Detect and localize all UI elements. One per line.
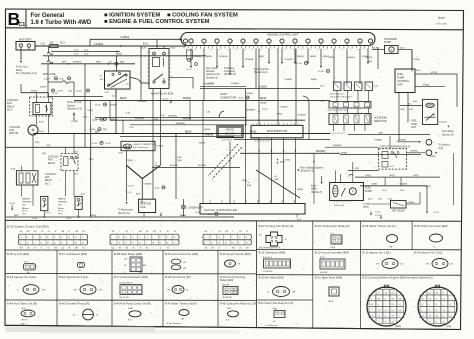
- wire LBR 170: [348, 169, 379, 171]
- svg-text:RELAY: RELAY: [48, 162, 56, 165]
- svg-text:B-02 Cooling Fan Motor [F]: B-02 Cooling Fan Motor [F]: [259, 224, 294, 228]
- wire GR bus 1: [355, 176, 440, 178]
- wire bus B/W 124: [130, 124, 246, 126]
- wire fan motor drop: [32, 135, 34, 147]
- svg-text:L: L: [124, 272, 125, 274]
- svg-text:FAN: FAN: [48, 159, 53, 162]
- svg-text:B/W[EM]: B/W[EM]: [138, 101, 147, 103]
- wire feed row y63.8: [41, 63, 135, 65]
- svg-text:(PALE (PALE (PALE (PALE: (PALE (PALE (PALE (PALE: [330, 96, 353, 99]
- wire x123 vertical2: [122, 120, 124, 133]
- svg-text:B-17 Solenoid Resistor [EM]: B-17 Solenoid Resistor [EM]: [114, 275, 148, 279]
- wire thermo1 ground: [43, 211, 45, 215]
- high tension leads V: [127, 165, 143, 178]
- svg-text:For General | For L.H.: For General | For L.H.: [259, 246, 281, 249]
- svg-text:WHS FUSE: WHS FUSE: [43, 73, 56, 76]
- knock sensor twisted pair: [208, 144, 238, 176]
- svg-text:AIR VALVE: AIR VALVE: [392, 210, 405, 213]
- svg-text:GR: GR: [181, 318, 185, 320]
- wire ECU pin drop: [359, 49, 361, 84]
- svg-text:L/BR: L/BR: [355, 168, 360, 170]
- wire ECU pin drop: [229, 49, 231, 73]
- svg-text:For General: For General: [31, 13, 65, 19]
- svg-text:THERMO: THERMO: [58, 202, 68, 204]
- distributor pin drops: [258, 138, 260, 204]
- svg-text:B/Y[R]: B/Y[R]: [414, 59, 420, 61]
- svg-text:W[EM]: W[EM]: [297, 189, 303, 191]
- svg-text:JC-02: JC-02: [375, 211, 381, 213]
- wire ECU to FPCU: [377, 47, 379, 69]
- svg-text:-C1: -C1: [17, 22, 26, 28]
- wire ECU pin drop: [268, 49, 270, 62]
- ECU pin: [183, 39, 187, 43]
- svg-text:■ ENGINE & FUEL CONTROL SYSTEM: ■ ENGINE & FUEL CONTROL SYSTEM: [104, 19, 210, 25]
- ECU pin: [293, 39, 297, 43]
- svg-text:W: W: [68, 247, 70, 249]
- table row rule right 2: [257, 274, 461, 277]
- fuse 30A: [50, 45, 59, 48]
- wire ECU pin drop: [307, 49, 309, 62]
- solenoid valve boxes: [334, 82, 342, 91]
- svg-text:B-11 2 B-11 2 B-11: B-11 2 B-11 2 B-11: [255, 141, 270, 143]
- wire transfer pump left: [372, 49, 385, 51]
- svg-text:BL: BL: [26, 237, 28, 239]
- bottom rule left: [5, 325, 257, 327]
- svg-text:B-45 [R]: B-45 [R]: [439, 122, 447, 124]
- svg-text:Y/G[EM]: Y/G[EM]: [280, 107, 288, 109]
- svg-text:4-10: 4-10: [74, 49, 79, 51]
- svg-text:B G: B G: [128, 319, 132, 321]
- wire coil grounds: [143, 213, 145, 218]
- svg-text:B-13 Injector No.1 [AL]: B-13 Injector No.1 [AL]: [362, 250, 391, 254]
- wire right edge vertical x457: [456, 74, 458, 107]
- wire bus bottom B: [6, 216, 234, 218]
- svg-text:W: W: [436, 304, 438, 306]
- svg-text:■ COOLING FAN SYSTEM: ■ COOLING FAN SYSTEM: [167, 12, 238, 18]
- battery B1: [16, 42, 35, 51]
- svg-text:Y/B[EM]: Y/B[EM]: [347, 57, 355, 59]
- wire relay verticals: [65, 147, 67, 153]
- svg-text:W: W: [436, 310, 438, 312]
- svg-text:(Section G-2): (Section G-2): [67, 108, 82, 111]
- svg-text:[EM]: [EM]: [396, 325, 401, 328]
- svg-text:J5-08: J5-08: [95, 105, 101, 107]
- svg-text:L: L: [450, 298, 451, 300]
- svg-text:BR/T: BR/T: [14, 215, 20, 217]
- svg-text:(Section 5): (Section 5): [203, 83, 214, 86]
- svg-text:For Tachometer: For Tachometer: [133, 146, 149, 149]
- svg-text:4-02: 4-02: [105, 92, 110, 94]
- svg-text:COOLING: COOLING: [45, 174, 56, 176]
- svg-text:BL: BL: [20, 231, 22, 233]
- svg-text:B/W[EM]: B/W[EM]: [135, 118, 144, 120]
- svg-text:B-17 B-17 B-17 B-17: B-17 B-17 B-17 B-17: [329, 133, 346, 135]
- wire x85 vertical: [84, 64, 86, 148]
- fuel tank unit: [423, 99, 438, 124]
- ECU pin: [215, 39, 219, 43]
- wire air valve left: [372, 203, 391, 205]
- wire bus B/W 139: [234, 139, 330, 141]
- svg-text:B[EM]: B[EM]: [363, 206, 369, 208]
- svg-text:B/W: B/W: [139, 272, 143, 274]
- wire ECU pin drop: [367, 49, 369, 62]
- svg-text:4-02: 4-02: [84, 49, 89, 51]
- svg-text:B-19: B-19: [390, 166, 394, 168]
- fusible link curl 2: [47, 61, 53, 64]
- fusible link curl 1: [47, 53, 53, 55]
- svg-text:B-22 Connector Between Emissio: B-22 Connector Between Emission [EM] and…: [362, 277, 433, 280]
- svg-text:B/R: B/R: [410, 109, 414, 111]
- svg-text:Y/G[EM]: Y/G[EM]: [398, 140, 406, 142]
- svg-text:B[R]: B[R]: [401, 109, 405, 111]
- engine control unit U1: [181, 33, 375, 46]
- svg-text:B-13: B-13: [320, 86, 324, 88]
- svg-text:B/W[F]: B/W[F]: [110, 105, 117, 107]
- svg-text:L: L: [450, 310, 451, 312]
- table column rules right: [312, 221, 314, 328]
- svg-text:GR: GR: [292, 292, 296, 294]
- svg-text:CHECK CONNECTOR: CHECK CONNECTOR: [133, 144, 156, 146]
- svg-text:B[EM]: B[EM]: [180, 215, 186, 217]
- svg-text:Y/G[M]: Y/G[M]: [71, 121, 78, 123]
- svg-text:B-10 2 B-10: B-10 2 B-10: [222, 140, 234, 142]
- ECU pin: [306, 39, 310, 43]
- svg-text:B/Y[F]: B/Y[F]: [40, 86, 46, 88]
- svg-text:UR B: UR B: [328, 301, 334, 303]
- water thermo switch 1: [41, 196, 48, 210]
- wire x190 vertical: [189, 100, 191, 120]
- svg-text:SI 4-07: SI 4-07: [128, 186, 135, 188]
- svg-text:B-35: B-35: [378, 199, 382, 201]
- wire battery to air con relay: [20, 50, 22, 61]
- svg-text:JC-32: JC-32: [105, 143, 111, 145]
- svg-text:BL: BL: [146, 247, 148, 249]
- wire diagonal to knock controller: [256, 170, 300, 198]
- svg-text:W: W: [246, 231, 248, 233]
- svg-text:GR[F]: GR[F]: [389, 175, 395, 177]
- svg-text:To Section: To Section: [439, 144, 450, 147]
- terminal circle B: [426, 150, 432, 156]
- svg-text:B-05 Check Connector [EM]: B-05 Check Connector [EM]: [414, 224, 448, 228]
- svg-text:JC-03: JC-03: [375, 215, 381, 217]
- svg-text:L: L: [225, 247, 226, 249]
- svg-text:W: W: [378, 293, 380, 295]
- svg-text:OFF: OFF: [58, 213, 63, 215]
- condenser C1: [183, 199, 185, 206]
- wire relay to terminal A: [397, 141, 420, 143]
- wire mid verticals 1: [245, 89, 247, 204]
- wire ECU pin drop: [281, 49, 283, 62]
- svg-text:B[EM]: B[EM]: [206, 56, 212, 58]
- svg-text:JC-01: JC-01: [32, 218, 38, 220]
- svg-text:20A: 20A: [68, 90, 72, 93]
- wire ECU pin drop: [294, 49, 296, 62]
- wire IG switch output: [115, 89, 117, 134]
- check connector tachometer: [121, 141, 155, 150]
- svg-text:B[EM]: B[EM]: [310, 56, 316, 58]
- svg-text:L/R: L/R: [183, 262, 187, 264]
- connector B-22 circular [AL]: [418, 287, 457, 326]
- svg-text:L: L: [429, 304, 430, 306]
- svg-text:J5-06: J5-06: [76, 91, 82, 93]
- svg-text:B/T[EM]: B/T[EM]: [73, 62, 81, 64]
- wire main relay feed: [156, 39, 158, 48]
- svg-text:B/W[EM]: B/W[EM]: [247, 110, 256, 112]
- svg-text:L: L: [211, 231, 212, 233]
- svg-text:B-01: B-01: [143, 43, 149, 45]
- svg-text:Y/B[EM]: Y/B[EM]: [365, 57, 373, 59]
- svg-text:B-10 Knock Sensor [EM]: B-10 Knock Sensor [EM]: [220, 252, 251, 256]
- note from meter right: [448, 126, 450, 128]
- svg-text:L/R: L/R: [42, 290, 46, 292]
- svg-text:Y/G[EM]: Y/G[EM]: [258, 86, 267, 88]
- svg-text:Y[F]: Y[F]: [46, 145, 50, 147]
- wire x110 vertical: [109, 100, 111, 120]
- svg-text:W: W: [422, 304, 424, 306]
- svg-text:RESISTOR: RESISTOR: [374, 120, 387, 123]
- svg-text:B/W: B/W: [178, 157, 182, 159]
- svg-text:R/G[EM]: R/G[EM]: [219, 56, 228, 58]
- wire hook to bus: [303, 96, 309, 103]
- svg-text:(-,F): (-,F): [128, 192, 132, 194]
- wire bus Y/G top: [90, 38, 182, 40]
- table row rule right 1: [257, 248, 461, 251]
- wire knock controller left feed: [202, 100, 204, 203]
- svg-text:JC-01: JC-01: [66, 218, 72, 220]
- svg-text:Y BW: Y BW: [226, 308, 231, 310]
- svg-text:FAN: FAN: [45, 176, 50, 179]
- wire bus Y/G mid: [200, 88, 320, 90]
- table row rule left 3: [5, 299, 257, 301]
- wire feed row y55.8: [43, 55, 206, 57]
- svg-text:B/W[EM]: B/W[EM]: [316, 151, 325, 153]
- svg-text:(Above: (Above: [22, 207, 29, 210]
- terminal circle A: [426, 139, 432, 145]
- svg-text:GR[F]: GR[F]: [372, 184, 378, 186]
- svg-text:Y/G[EM]: Y/G[EM]: [144, 184, 152, 186]
- table sub row rule right: [257, 299, 313, 301]
- svg-text:B/G[R]: B/G[R]: [423, 84, 430, 86]
- svg-text:JC-36: JC-36: [262, 109, 268, 111]
- svg-text:L/R: L/R: [99, 290, 103, 292]
- solenoid resistor block: [329, 114, 371, 125]
- svg-text:R[EM]: R[EM]: [329, 57, 335, 59]
- svg-text:SI B-06: SI B-06: [157, 146, 165, 148]
- wire air valve right: [406, 203, 420, 205]
- svg-text:B-15 Injector No.3 [AL]: B-15 Injector No.3 [AL]: [7, 275, 36, 279]
- svg-text:JC-06: JC-06: [318, 71, 324, 73]
- wire bus B/W 153: [240, 152, 340, 154]
- ECU pin: [368, 39, 372, 43]
- svg-text:B-01 Engine Control Unit [EM]: B-01 Engine Control Unit [EM]: [7, 224, 49, 228]
- wire bus L/BR right: [348, 134, 430, 136]
- svg-text:BL: BL: [159, 243, 161, 245]
- wire knock controller ground: [296, 214, 298, 218]
- svg-text:THERMO: THERMO: [22, 202, 32, 204]
- svg-text:T[EM]: T[EM]: [425, 186, 431, 188]
- wire transfer pump right: [398, 49, 412, 51]
- svg-text:(Section E-b): (Section E-b): [254, 71, 268, 74]
- svg-text:(Below: (Below: [58, 208, 65, 210]
- svg-text:W: W: [385, 316, 387, 318]
- wire thermo2 ground: [78, 209, 80, 214]
- wire from wiper arrow: [321, 182, 323, 184]
- wire main relay outputs: [152, 89, 154, 200]
- svg-text:CONDENSER: CONDENSER: [188, 207, 204, 210]
- svg-text:From Meter: From Meter: [442, 130, 454, 133]
- svg-text:B[F]: B[F]: [95, 131, 100, 133]
- svg-text:No.2: No.2: [7, 109, 13, 112]
- svg-text:B/R[EM]: B/R[EM]: [205, 134, 214, 136]
- fuel pump P1: [330, 183, 364, 201]
- ECU pin: [332, 39, 336, 43]
- wire fan relay no2 out: [36, 115, 38, 126]
- svg-text:BL: BL: [54, 243, 56, 245]
- svg-text:[EM]: [EM]: [247, 185, 252, 187]
- arrow pair 1EM: [277, 159, 279, 161]
- ECU pin: [280, 39, 284, 43]
- svg-text:CONNECTOR: CONNECTOR: [220, 96, 236, 99]
- svg-text:B[EM]: B[EM]: [261, 103, 267, 105]
- svg-text:YB YR: YB YR: [21, 319, 28, 321]
- svg-text:4-10: 4-10: [74, 54, 79, 56]
- wire ECU pin drop: [203, 49, 205, 101]
- ECU pin stubs: [183, 46, 185, 49]
- water thermo switch 2: [75, 196, 82, 209]
- svg-text:B-18 Fuel Pump [R]: B-18 Fuel Pump [R]: [165, 275, 191, 279]
- svg-text:YDA: YDA: [59, 77, 64, 80]
- svg-text:L: L: [422, 310, 423, 312]
- svg-text:B/C[EM]: B/C[EM]: [245, 93, 253, 95]
- svg-text:B-47 Water Thermo Sw [F]: B-47 Water Thermo Sw [F]: [165, 302, 197, 306]
- svg-text:(Section T): (Section T): [311, 191, 322, 194]
- main relay K1: [149, 49, 169, 89]
- svg-text:B/W[EM]: B/W[EM]: [168, 115, 177, 117]
- svg-text:B[F]: B[F]: [120, 62, 124, 64]
- wire right vertical JC-21: [426, 186, 428, 210]
- wire IG switch feed: [115, 56, 117, 71]
- ECU pin: [241, 39, 245, 43]
- svg-text:PUMP: PUMP: [384, 41, 391, 44]
- svg-text:L: L: [132, 231, 133, 233]
- svg-text:To Tachometer: To Tachometer: [118, 209, 133, 212]
- svg-text:COIL: COIL: [140, 206, 146, 209]
- svg-text:1[EM]: 1[EM]: [280, 162, 286, 164]
- svg-text:PUMP: PUMP: [365, 190, 372, 193]
- svg-text:B-01: B-01: [112, 95, 117, 97]
- svg-text:GR: GR: [389, 247, 393, 249]
- svg-text:B-21: B-21: [60, 42, 66, 44]
- wire ECU pin drop: [242, 49, 244, 66]
- wire hook at 219: [219, 111, 224, 118]
- svg-text:B-20: B-20: [368, 199, 372, 201]
- wire x141 vertical: [140, 46, 142, 100]
- svg-text:B-07 Condenser [EM]: B-07 Condenser [EM]: [59, 252, 87, 256]
- svg-text:G[F]: G[F]: [42, 153, 47, 155]
- svg-text:L: L: [68, 243, 69, 245]
- svg-text:[R]: [R]: [408, 103, 411, 105]
- svg-text:17°C): 17°C): [58, 211, 64, 213]
- svg-text:CIRCUIT OPENING RELAY: CIRCUIT OPENING RELAY: [380, 145, 411, 148]
- svg-text:KNOCK CONTROLLER: KNOCK CONTROLLER: [204, 208, 238, 212]
- svg-text:B-04 Water Thermo Sw [F]: B-04 Water Thermo Sw [F]: [362, 224, 395, 228]
- ignition coil T1: [139, 199, 156, 212]
- wire battery main feed y46: [35, 45, 186, 47]
- svg-text:B-09 Joint Connector [EM]: B-09 Joint Connector [EM]: [165, 252, 198, 256]
- table row rule left 2: [5, 273, 257, 275]
- svg-text:TANK: TANK: [411, 123, 417, 126]
- svg-text:UNIT: UNIT: [397, 83, 403, 86]
- svg-text:4-05: 4-05: [84, 54, 89, 56]
- svg-text:L/R: L/R: [183, 268, 187, 270]
- wire ECU pin drop: [346, 49, 348, 84]
- ECU pin: [202, 39, 206, 43]
- svg-text:[AL]: [AL]: [447, 325, 452, 328]
- svg-text:RED: RED: [62, 62, 67, 64]
- svg-text:Y[FM]: Y[FM]: [277, 114, 283, 116]
- scan shadow bottom left: [5, 327, 155, 333]
- index box B-C1: [25, 9, 27, 28]
- svg-text:B-16 Injector No.4 [AL]: B-16 Injector No.4 [AL]: [59, 275, 88, 279]
- svg-text:W[F]: W[F]: [96, 62, 101, 64]
- svg-text:1.6 ℓ Turbo With 4WD: 1.6 ℓ Turbo With 4WD: [31, 20, 92, 26]
- header band bottom rule: [6, 28, 464, 30]
- svg-text:SENSOR: SENSOR: [225, 132, 235, 135]
- svg-text:S[EM]: S[EM]: [430, 156, 436, 158]
- wire distributor feeds: [258, 49, 260, 126]
- bottom table mid divider: [256, 221, 258, 328]
- svg-text:B-08: B-08: [171, 48, 176, 50]
- svg-text:Note: Note: [438, 16, 445, 20]
- svg-text:DR GR WR: DR GR WR: [222, 297, 232, 299]
- svg-text:B/Y[F]: B/Y[F]: [31, 91, 37, 93]
- wire ECU pin drop: [190, 49, 192, 66]
- svg-text:GR[F]: GR[F]: [413, 175, 419, 177]
- svg-text:● No part: ● No part: [436, 22, 447, 26]
- svg-text:4-21: 4-21: [41, 43, 46, 45]
- resistor relay box: [16, 171, 38, 185]
- svg-text:B[F]: B[F]: [103, 129, 107, 131]
- svg-text:ENGINE CONTROL UNIT: ENGINE CONTROL UNIT: [267, 33, 298, 37]
- wire bus BR upper: [74, 99, 330, 101]
- knock controller pins: [209, 200, 211, 204]
- knock sensor: [217, 126, 243, 138]
- knock controller U3: [200, 204, 305, 215]
- svg-text:Y/G[EM]: Y/G[EM]: [120, 36, 129, 39]
- svg-text:[EM]: [EM]: [275, 179, 280, 181]
- ECU pin: [254, 39, 258, 43]
- svg-text:BL: BL: [40, 237, 42, 239]
- wire vertical from bus to knock controller: [313, 153, 315, 203]
- svg-text:WATER: WATER: [58, 198, 66, 201]
- svg-text:B/W[EM]: B/W[EM]: [176, 123, 185, 125]
- svg-text:Cu: Cu: [155, 163, 158, 165]
- svg-text:RG Y: RG Y: [21, 323, 27, 325]
- wire FPCU drops: [398, 93, 400, 142]
- svg-text:BR[EM]: BR[EM]: [183, 98, 191, 100]
- svg-text:G Y/B B/G: G Y/B B/G: [263, 271, 273, 273]
- svg-text:B-11 Distributor [EM]: B-11 Distributor [EM]: [259, 250, 286, 254]
- svg-text:B/W[EM]: B/W[EM]: [333, 145, 342, 147]
- svg-text:B[EM]: B[EM]: [311, 79, 317, 81]
- svg-text:B[F]: B[F]: [89, 159, 93, 161]
- svg-text:B G: B G: [226, 319, 230, 321]
- wire whs row: [48, 96, 103, 98]
- ignition switch SW1: [105, 71, 131, 89]
- svg-text:Y/G[EM]: Y/G[EM]: [193, 56, 202, 58]
- fuel pump control unit U2: [395, 69, 415, 93]
- svg-text:L/G Y/L L/B: L/G Y/L L/B: [119, 297, 129, 299]
